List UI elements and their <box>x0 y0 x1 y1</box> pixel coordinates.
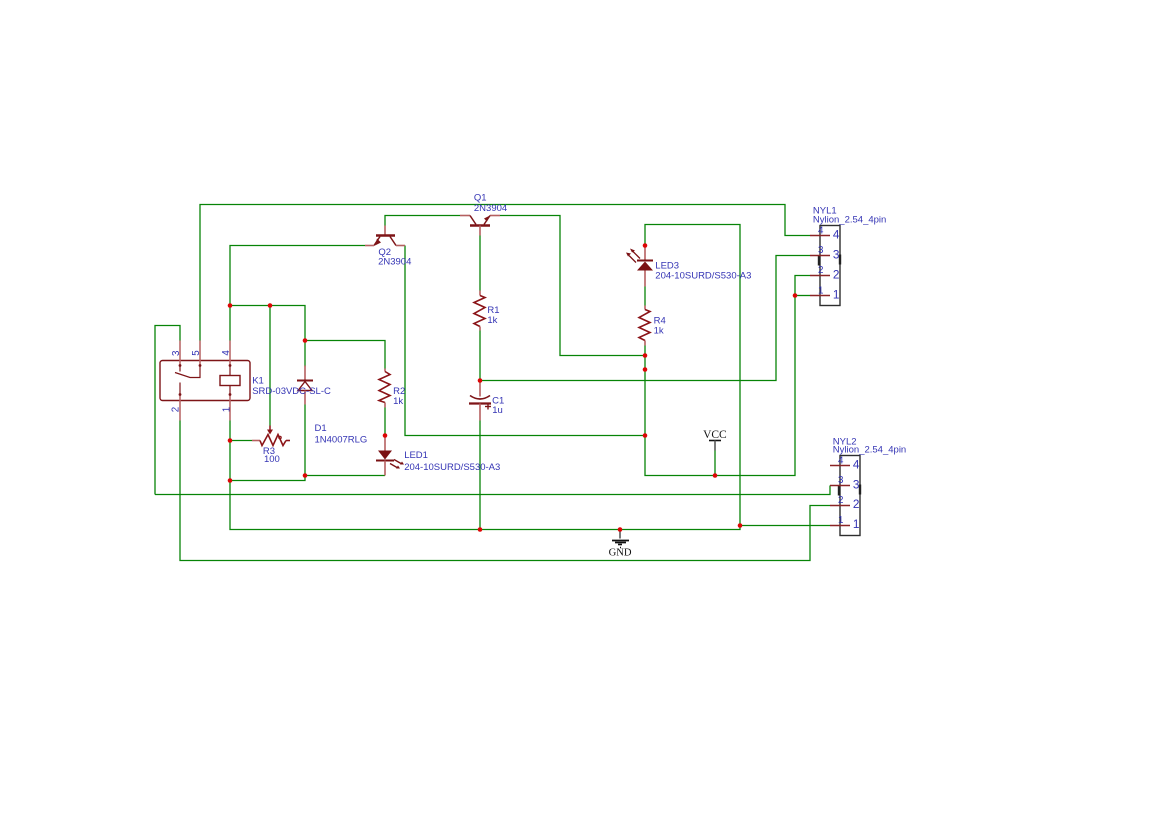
svg-text:3: 3 <box>838 475 844 486</box>
wire R2 bottom to LED1 <box>384 408 386 436</box>
ground GND <box>612 530 629 548</box>
junction R4 bottom b <box>643 367 648 372</box>
svg-text:5: 5 <box>191 350 202 356</box>
svg-text:1u: 1u <box>492 405 503 416</box>
svg-text:2: 2 <box>818 265 823 276</box>
wire Q2 base to Q1 collector <box>385 216 460 226</box>
wire Q1 base to R1 <box>479 236 481 291</box>
svg-text:4: 4 <box>853 458 860 472</box>
wire node row y305 <box>230 306 305 341</box>
wire R3 left feed <box>230 440 252 442</box>
wire R1 bottom to C1 node <box>479 331 481 381</box>
wire Q1 emitter right then down to LED3 net <box>500 216 645 356</box>
resistor R3 (horizontal with wiper arrow) <box>252 426 290 446</box>
svg-text:Nylion_2.54_4pin: Nylion_2.54_4pin <box>813 215 886 226</box>
junction C1 bottom GND rail <box>478 527 483 532</box>
svg-text:4: 4 <box>818 225 824 236</box>
junction relay pin1 bottom <box>228 478 233 483</box>
connector NYL1 <box>810 226 840 306</box>
junction LED3 top <box>643 243 648 248</box>
svg-text:1: 1 <box>838 515 843 526</box>
svg-text:K1: K1 <box>252 375 264 386</box>
transistor Q1 <box>460 216 500 236</box>
wire GND rail to NYL2 pin1 <box>230 481 830 530</box>
svg-text:3: 3 <box>853 477 860 491</box>
wire R3 wiper arrow feed <box>269 306 271 426</box>
wire LED3 to R4 <box>644 287 646 306</box>
svg-text:2: 2 <box>838 495 843 506</box>
svg-text:2N3904: 2N3904 <box>378 256 411 267</box>
resistor R2 <box>379 369 390 408</box>
svg-text:2N3904: 2N3904 <box>474 203 507 214</box>
svg-text:4: 4 <box>833 228 840 242</box>
svg-text:SRD-03VDC-SL-C: SRD-03VDC-SL-C <box>252 386 331 397</box>
svg-text:1k: 1k <box>487 315 497 326</box>
junction D1 bottom <box>303 473 308 478</box>
wire long rail y494 to NYL2 pin3 <box>155 486 830 495</box>
svg-text:2: 2 <box>853 497 860 511</box>
svg-text:1: 1 <box>853 517 860 531</box>
svg-text:1: 1 <box>222 407 233 412</box>
power VCC <box>709 441 721 451</box>
junction Q2 collector to LED3 column <box>643 433 648 438</box>
svg-text:LED1: LED1 <box>404 450 428 461</box>
wire node A to R2 top <box>305 341 385 369</box>
junction NYL1 pin1 <box>793 293 798 298</box>
svg-text:D1: D1 <box>315 423 327 434</box>
transistor Q2 <box>365 226 405 246</box>
wire D1 bottom jog <box>230 476 305 481</box>
wire relay pin1 column <box>229 421 231 481</box>
wire D1 top green <box>304 341 306 367</box>
svg-text:1k: 1k <box>393 396 403 407</box>
wire Q2 emitter to left column <box>230 246 365 341</box>
wire C1 node to NYL1 pin3 <box>480 256 810 381</box>
resistor R1 <box>474 291 485 331</box>
svg-text:1: 1 <box>833 288 840 302</box>
junction GND tap <box>618 527 623 532</box>
junction node A D1 top <box>303 338 308 343</box>
wire LED3 top corner and long vertical to NYL2 pin1 junction <box>645 225 740 526</box>
junction R3 left <box>228 438 233 443</box>
diode D1 <box>297 366 313 405</box>
connector NYL2 <box>830 456 860 536</box>
wire C1 bottom to GND rail <box>479 421 481 530</box>
wire VCC stub green <box>714 451 716 476</box>
relay K1 <box>160 341 250 421</box>
resistor R4 <box>639 306 650 346</box>
svg-text:4: 4 <box>838 455 844 466</box>
junction R1/C1 <box>478 378 483 383</box>
wire D1 bottom green <box>304 405 306 476</box>
wire R4 bottom through junctions to VCC rail <box>645 276 810 476</box>
svg-text:3: 3 <box>818 245 824 256</box>
wire D1 LED1 bottom link <box>305 475 385 477</box>
svg-text:1k: 1k <box>654 326 664 337</box>
wire NYL1 pin1 stub <box>795 295 810 297</box>
wire top rail left corner to NYL1 area <box>200 205 810 341</box>
wire Q2 collector down and across to LED3 column <box>405 246 645 436</box>
capacitor C1 <box>469 382 491 421</box>
wire relay pin2 down to bottom rail to NYL2 pin2 <box>180 421 830 561</box>
junction NYL2 pin1 branch <box>738 523 743 528</box>
svg-text:3: 3 <box>171 350 182 356</box>
svg-text:204-10SURD/S530-A3: 204-10SURD/S530-A3 <box>404 462 500 473</box>
svg-text:VCC: VCC <box>703 429 727 441</box>
svg-text:100: 100 <box>264 454 280 465</box>
junction VCC tap <box>713 473 718 478</box>
junction at relay pin4 node <box>228 303 233 308</box>
svg-text:204-10SURD/S530-A3: 204-10SURD/S530-A3 <box>655 271 751 282</box>
svg-text:GND: GND <box>609 547 632 558</box>
svg-text:1N4007RLG: 1N4007RLG <box>315 435 368 446</box>
svg-text:2: 2 <box>833 267 840 281</box>
LED LED1 <box>376 437 404 476</box>
svg-text:Nylion_2.54_4pin: Nylion_2.54_4pin <box>833 445 906 456</box>
LED LED3 <box>626 247 653 287</box>
junction R4 bottom a <box>643 353 648 358</box>
wire relay pin3 loop left side <box>155 326 180 495</box>
svg-text:2: 2 <box>170 407 181 412</box>
svg-text:4: 4 <box>221 350 232 356</box>
junction at R3 wiper column <box>268 303 273 308</box>
junction R2/LED1 <box>383 433 388 438</box>
svg-text:3: 3 <box>833 247 840 261</box>
svg-text:1: 1 <box>818 285 823 296</box>
